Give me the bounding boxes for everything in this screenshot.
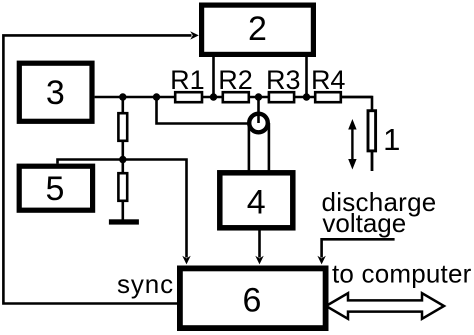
- box 5: [19, 166, 92, 210]
- node: rail / box2 left leg junction: [210, 93, 217, 100]
- wire: probe tap down and right to pickup coil: [157, 97, 251, 124]
- node: rail / probe tap junction: [153, 93, 160, 100]
- wire: coil right lead down to box 4: [268, 123, 271, 171]
- divider resistor lower (vertical): [118, 173, 127, 219]
- box 6: [180, 268, 326, 328]
- svg-text:2: 2: [248, 10, 267, 48]
- wire: box2 left leg down to rail: [212, 55, 215, 97]
- arrowhead into box 2 left edge: [190, 31, 199, 39]
- wire: divider mid: [122, 141, 125, 173]
- node: rail / pickup coil junction: [255, 93, 262, 100]
- box 2: [202, 5, 314, 54]
- wire: box4 output down to box6: [258, 231, 261, 258]
- pickup coil (circle): [249, 114, 268, 133]
- svg-text:voltage: voltage: [322, 208, 406, 238]
- svg-text:1: 1: [383, 122, 400, 157]
- svg-text:3: 3: [46, 74, 65, 112]
- node: rail / box2 right leg junction: [303, 93, 310, 100]
- arrowhead into box 6 top (discharge voltage): [317, 256, 325, 265]
- ground: [109, 219, 139, 224]
- svg-text:to computer: to computer: [332, 258, 472, 288]
- wire: sync feedback loop (box6 left, up left side, across top): [3, 35, 191, 303]
- wire: R4 to moving electrode 1: [341, 97, 372, 110]
- box 3: [19, 63, 92, 121]
- wire: box5 to sync line to box6 (trigger): [58, 160, 187, 258]
- svg-text:sync: sync: [117, 269, 174, 299]
- electrode 1 (vertical bar): [368, 111, 376, 151]
- svg-text:R2: R2: [218, 65, 253, 95]
- svg-text:6: 6: [243, 282, 262, 320]
- to-computer double arrow (horizontal, outlined): [326, 293, 444, 319]
- motion double arrow (vertical): [348, 119, 356, 170]
- wire: discharge voltage leader into box 6: [322, 239, 395, 257]
- arrowhead into box 6 top (sync trigger): [182, 256, 190, 265]
- box 4: [220, 173, 293, 228]
- wire: box2 right leg down to rail: [305, 55, 308, 97]
- node: divider mid / sync line junction: [119, 156, 126, 163]
- svg-text:R4: R4: [311, 65, 346, 95]
- resistor R3: [266, 65, 301, 102]
- svg-text:5: 5: [46, 170, 65, 208]
- arrowhead into box 6 top (box4 output): [255, 256, 263, 265]
- resistor R4: [311, 65, 346, 102]
- wire: box3 output / resistor chain rail: [95, 96, 373, 99]
- svg-text:R1: R1: [170, 65, 205, 95]
- resistor R2: [218, 65, 253, 102]
- svg-text:4: 4: [247, 184, 266, 222]
- node: rail / divider junction: [119, 93, 126, 100]
- divider resistor upper (vertical): [118, 97, 127, 141]
- resistor R1: [170, 65, 205, 102]
- wire: rail junction into coil center: [257, 97, 260, 123]
- wire: coil left lead down to box 4: [248, 123, 251, 171]
- wire: electrode lower stub: [371, 151, 374, 171]
- svg-text:R3: R3: [266, 65, 301, 95]
